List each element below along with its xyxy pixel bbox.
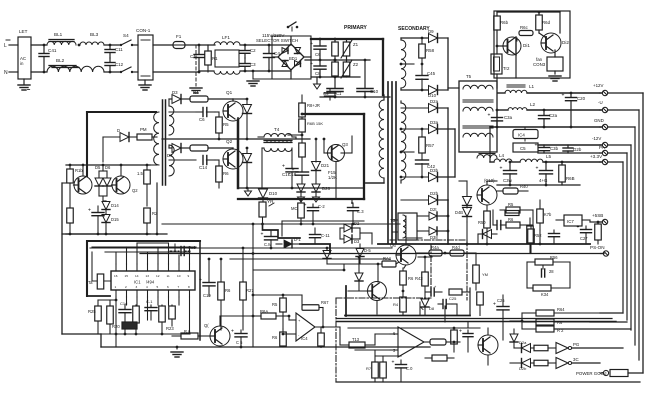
inductor L3: [477, 155, 497, 158]
capacitor C20: [570, 93, 572, 97]
resistor R26: [220, 259, 222, 282]
wire: [240, 44, 269, 46]
diode D16: [466, 181, 468, 196]
wire: [322, 308, 324, 328]
svg-text:YM: YM: [482, 272, 488, 277]
svg-text:C1: C1: [190, 54, 196, 59]
svg-text:R6: R6: [408, 276, 414, 281]
diode D2c: [522, 344, 531, 353]
svg-text:D21: D21: [321, 163, 330, 168]
svg-text:R4: R4: [193, 90, 199, 95]
svg-text:C3: C3: [250, 62, 256, 67]
svg-text:8: 8: [188, 285, 190, 289]
resistor R24: [159, 306, 166, 322]
wire: [570, 274, 582, 276]
IC1 TL494 body: [111, 271, 195, 290]
svg-text:/494: /494: [146, 280, 155, 285]
svg-text:12: 12: [156, 274, 160, 278]
resistor R46: [400, 271, 407, 285]
resistor R10: [299, 143, 306, 157]
svg-text:11: 11: [167, 274, 170, 278]
resistor R61a: [519, 31, 533, 36]
diode D4: [169, 146, 172, 148]
diode D24: [297, 184, 305, 192]
resistor R20 dark: [122, 322, 137, 329]
diode D18: [482, 233, 487, 235]
svg-text:D4B: D4B: [455, 210, 463, 215]
svg-text:2: 2: [125, 285, 127, 289]
svg-text:D26: D26: [322, 186, 331, 191]
resistor PM: [137, 134, 152, 140]
wire bottom link: [470, 295, 490, 310]
svg-text:Q2: Q2: [132, 188, 138, 193]
transformer T1 aux winding: [401, 40, 406, 88]
wire: [459, 180, 467, 182]
wire: [497, 11, 560, 13]
svg-text:D10: D10: [269, 191, 278, 196]
diode D8: [246, 148, 248, 153]
wire: [169, 111, 196, 113]
wire: [497, 199, 540, 201]
resistor R4: [190, 96, 208, 102]
svg-text:D3: D3: [354, 239, 360, 244]
svg-text:R1b: R1b: [75, 168, 83, 173]
svg-text:R5: R5: [272, 302, 278, 307]
wire bus right edge: [608, 92, 643, 94]
wire: [282, 320, 284, 322]
svg-text:R7: R7: [366, 366, 372, 371]
svg-text:C 5: C 5: [236, 340, 243, 345]
diode D27: [344, 224, 352, 232]
capacitor C2: [244, 45, 246, 50]
transformer T1 secondary winding: [401, 103, 406, 180]
resistor R58: [421, 38, 423, 44]
wire Q8 collector: [377, 264, 379, 282]
transistor Q3: [328, 145, 345, 162]
resistor R62a: [536, 15, 543, 30]
capacitor Ca1 dashed: [170, 250, 179, 252]
svg-text:Z2: Z2: [353, 62, 359, 67]
diode D5: [98, 171, 100, 177]
transformer T5 winding c: [463, 133, 493, 137]
resistor R68: [561, 162, 563, 165]
capacitor C15b: [240, 330, 242, 333]
svg-text:R6B 15K: R6B 15K: [307, 121, 323, 126]
transformer T1 core: [387, 82, 389, 243]
svg-text:+: +: [231, 329, 234, 335]
svg-text:LET: LET: [19, 29, 28, 34]
svg-text:D3: D3: [172, 90, 178, 95]
svg-text:15: 15: [125, 274, 129, 278]
svg-text:R6: R6: [272, 335, 278, 340]
transistor Q14: [74, 176, 92, 194]
svg-text:D14: D14: [111, 203, 119, 208]
svg-text:R6c: R6c: [520, 25, 529, 30]
svg-text:+: +: [392, 360, 395, 366]
svg-text:R52: R52: [534, 233, 542, 238]
zener D8b: [421, 299, 429, 307]
transformer TR2: [491, 54, 502, 74]
svg-text:PA: PA: [599, 145, 606, 150]
wire bus above IC1: [92, 246, 196, 248]
capacitor C28: [542, 266, 544, 269]
diode D21: [315, 139, 317, 162]
svg-text:D2a: D2a: [430, 99, 439, 104]
ground arrow: [298, 197, 305, 202]
wire bottom frame: [336, 381, 640, 383]
svg-text:+3.3V: +3.3V: [590, 154, 603, 159]
ground: [144, 80, 146, 84]
capacitor C11: [104, 44, 120, 46]
terminal -U: [602, 107, 607, 112]
capacitor C14: [202, 156, 204, 165]
resistor R27: [242, 248, 244, 282]
svg-text:D9: D9: [428, 29, 434, 34]
capacitor C13: [352, 203, 354, 207]
svg-text:C.M: C.M: [264, 242, 272, 247]
svg-text:C26: C26: [497, 298, 505, 303]
transistor Q2: [223, 149, 243, 169]
svg-text:C5: C5: [520, 146, 526, 151]
diode D26: [312, 184, 320, 192]
svg-text:R56: R56: [550, 255, 558, 260]
wire rail A: [90, 247, 392, 249]
svg-text:4+G: 4+G: [539, 178, 548, 183]
wire y328: [348, 327, 468, 329]
svg-text:28: 28: [549, 269, 554, 274]
capacitor C25: [442, 300, 444, 309]
svg-text:R4a: R4a: [431, 245, 439, 250]
resistor R21: [107, 306, 114, 324]
transistor Q5: [396, 245, 416, 265]
wire: [521, 313, 523, 329]
diode D14b: [326, 248, 328, 250]
wire thick primary return: [303, 113, 364, 115]
resistor R30: [300, 218, 302, 224]
IC1 pins top: [115, 264, 117, 271]
svg-text:R8+JR: R8+JR: [307, 103, 320, 108]
connector CON3 fan: [547, 57, 563, 71]
wire: [335, 162, 337, 200]
resistor R40b: [400, 297, 407, 312]
svg-text:9: 9: [188, 274, 190, 278]
svg-text:13: 13: [146, 274, 150, 278]
svg-text:D2t: D2t: [430, 207, 437, 212]
wire rail C: [230, 258, 390, 260]
svg-text:5: 5: [157, 285, 159, 289]
wire: [374, 334, 376, 345]
resistor R61: [610, 370, 628, 377]
svg-text:C-2: C-2: [318, 204, 325, 209]
svg-text:GND: GND: [594, 118, 604, 123]
transformer T5 winding a: [463, 85, 493, 89]
resistor R44: [416, 252, 429, 254]
svg-text:+: +: [199, 278, 202, 284]
svg-text:K34: K34: [541, 292, 549, 297]
op-amp IC2: [296, 313, 315, 341]
resistor R57: [421, 129, 423, 137]
varistor VR2: [343, 62, 350, 76]
svg-text:D4: D4: [167, 153, 173, 158]
resistor R15: [181, 333, 198, 339]
diode D7: [246, 99, 248, 104]
trimpot VR3: [259, 202, 266, 217]
svg-text:L2: L2: [530, 102, 536, 107]
svg-text:L1: L1: [529, 84, 535, 89]
diode D2b: [401, 199, 428, 201]
buffer PG: [556, 343, 568, 354]
svg-text:R5: R5: [508, 202, 514, 207]
diode D15: [102, 215, 110, 223]
capacitor C21: [496, 221, 498, 230]
resistor R22: [133, 306, 140, 323]
svg-text:L: L: [4, 43, 7, 49]
svg-text:R4d: R4d: [452, 245, 460, 250]
wire: [102, 137, 104, 162]
svg-text:R58: R58: [426, 48, 435, 53]
svg-text:+12V: +12V: [593, 83, 603, 88]
resistor R8: [301, 95, 303, 103]
resistor R64: [522, 312, 536, 314]
wire bottom rail: [238, 187, 364, 189]
op-amp IC3: [398, 327, 424, 357]
resistor R6a: [597, 222, 599, 224]
capacitor C2c: [567, 145, 569, 148]
wire -U rail: [527, 109, 601, 111]
ground arrow: [313, 197, 320, 202]
trimpot VR3 wire: [262, 217, 264, 224]
resistor R41: [382, 261, 396, 267]
svg-text:C.3: C.3: [357, 209, 364, 214]
diode D1: [276, 243, 282, 245]
svg-text:C2: C2: [250, 48, 256, 53]
ground: [190, 87, 202, 89]
svg-text:10: 10: [177, 274, 181, 278]
svg-text:1.5: 1.5: [137, 171, 143, 176]
svg-text:14: 14: [135, 274, 139, 278]
svg-text:D2a: D2a: [519, 340, 527, 345]
capacitor C3: [244, 58, 246, 63]
inductor BL1: [47, 41, 76, 45]
svg-text:3: 3: [136, 285, 138, 289]
terminal PA: [602, 150, 607, 155]
capacitor C2k: [553, 230, 555, 233]
capacitor C12b: [150, 305, 152, 307]
transistor Q8: [368, 282, 387, 301]
svg-text:C3b: C3b: [550, 146, 559, 151]
resistor R73: [340, 344, 349, 346]
switch S1 selector: [287, 26, 290, 29]
capacitor C19a: [325, 92, 336, 94]
resistor R3: [332, 62, 339, 76]
wire IC1 top connections: [115, 252, 117, 264]
svg-text:C3w: C3w: [503, 178, 513, 183]
terminal PG out: [603, 370, 608, 375]
svg-text:Di1: Di1: [523, 43, 530, 48]
resistor R48: [534, 345, 548, 351]
svg-text:+: +: [310, 61, 313, 67]
capacitor C13b: [430, 288, 432, 296]
svg-text:C20: C20: [577, 96, 586, 101]
capacitor C11b: [314, 228, 316, 234]
transformer T5 box: [459, 81, 497, 152]
transformer T4: [264, 134, 292, 137]
inductor BL3: [80, 42, 104, 45]
wire: [253, 269, 344, 271]
wire: [444, 306, 446, 322]
svg-text:D8: D8: [429, 306, 435, 311]
svg-text:G2b: G2b: [573, 147, 582, 152]
svg-text:C45: C45: [427, 71, 436, 76]
svg-text:+: +: [500, 166, 503, 172]
wire: [492, 210, 494, 225]
svg-text:+: +: [488, 113, 491, 119]
filter inductor LF1: [215, 50, 239, 67]
resistor R48b: [430, 357, 436, 359]
switch S4: [120, 44, 122, 46]
svg-text:R64: R64: [557, 307, 565, 312]
resistor R7b: [539, 208, 541, 213]
svg-text:+: +: [282, 164, 285, 170]
resistor R56: [527, 261, 535, 263]
diode D2t: [417, 215, 428, 217]
wire bus y318: [337, 318, 612, 320]
svg-text:R67: R67: [321, 300, 329, 305]
wire block right side: [156, 183, 158, 234]
svg-text:PG: PG: [573, 342, 580, 347]
svg-text:in: in: [20, 61, 24, 66]
capacitor C19: [208, 259, 210, 282]
wire: [161, 334, 163, 336]
resistor R4G: [473, 265, 480, 283]
svg-text:+: +: [562, 93, 565, 99]
svg-text:+5SB: +5SB: [592, 213, 603, 218]
svg-text:R 2: R 2: [557, 328, 564, 333]
svg-text:R40: R40: [520, 184, 528, 189]
resistor R63a: [530, 225, 532, 229]
wire: [99, 170, 107, 172]
svg-text:BL2: BL2: [56, 58, 65, 63]
svg-text:+: +: [577, 225, 580, 231]
wire: [209, 295, 221, 297]
diode D6: [106, 171, 108, 177]
svg-text:+: +: [535, 143, 538, 149]
svg-text:D2: D2: [354, 221, 360, 226]
wire +12V rail: [527, 92, 601, 94]
resistor R4G2: [479, 291, 481, 293]
standby supply box: [494, 11, 570, 78]
svg-text:D2b: D2b: [519, 366, 527, 371]
diode D3a: [429, 125, 438, 134]
svg-text:T13: T13: [352, 337, 360, 342]
transformer T3: [398, 213, 417, 240]
svg-text:PM: PM: [140, 127, 147, 132]
resistor R20a: [146, 206, 148, 208]
svg-text:C3a: C3a: [504, 115, 513, 120]
svg-text:R6: R6: [557, 320, 563, 325]
wire: [419, 302, 421, 315]
wire: [327, 263, 360, 265]
transformer T1 primary winding: [379, 100, 384, 178]
resistor R23: [169, 306, 176, 319]
svg-text:16: 16: [114, 274, 118, 278]
diode D3: [169, 98, 172, 100]
svg-text:C6: C6: [315, 52, 321, 57]
diode D9: [429, 34, 438, 43]
svg-text:+: +: [459, 329, 462, 335]
regulator IC7: [564, 215, 582, 226]
svg-text:+: +: [493, 302, 496, 308]
terminal +5VSB: [602, 219, 607, 224]
svg-text:C1d: C1d: [120, 301, 127, 306]
svg-text:R6A: R6A: [260, 309, 268, 314]
capacitor C3w: [509, 162, 511, 170]
wire rectifier bus: [447, 108, 449, 200]
terminal +3.3V: [602, 159, 607, 164]
wire: [497, 184, 580, 186]
diode D2a: [429, 104, 438, 113]
svg-text:BL1: BL1: [54, 32, 63, 37]
svg-text:SELECTOR SWITCH: SELECTOR SWITCH: [256, 38, 298, 43]
wire: [391, 224, 393, 248]
svg-text:D2b: D2b: [430, 191, 439, 196]
wire thick emitter bus: [237, 120, 240, 188]
wire: [169, 159, 196, 161]
wire rail B: [162, 223, 400, 225]
svg-text:IC7: IC7: [567, 219, 574, 224]
svg-text:F1: F1: [176, 34, 182, 39]
inductor BL2: [47, 66, 104, 72]
resistor R49: [534, 360, 548, 366]
svg-text:CON3: CON3: [533, 62, 546, 67]
wire: [424, 341, 430, 343]
svg-text:D15: D15: [111, 217, 119, 222]
svg-text:L4: L4: [499, 153, 505, 158]
svg-text:R50: R50: [478, 220, 486, 225]
capacitor C3b: [543, 145, 545, 147]
ground arrow: [246, 181, 248, 188]
resistor R67: [301, 295, 303, 301]
wire +5VSB heavy rail: [378, 243, 590, 245]
inductor L1: [497, 87, 505, 89]
svg-text:4: 4: [146, 285, 148, 289]
svg-text:+: +: [310, 41, 313, 47]
resistor R52: [529, 210, 531, 225]
capacitor C17: [291, 160, 293, 168]
capacitor C1: [198, 45, 200, 54]
transistor Q12: [503, 37, 521, 55]
svg-text:7: 7: [178, 285, 180, 289]
wire PA rail: [538, 152, 601, 154]
svg-text:D-5: D-5: [364, 248, 371, 253]
terminal PS-ON: [603, 251, 608, 256]
wire sub-box: [526, 262, 528, 288]
resistor R71: [372, 362, 379, 378]
resistor R50: [486, 205, 488, 211]
svg-text:C-11: C-11: [321, 233, 330, 238]
fuse F1: [173, 42, 185, 49]
resistor R60: [496, 12, 498, 16]
svg-text:Tr2: Tr2: [503, 66, 510, 71]
svg-text:D38: D38: [430, 235, 438, 240]
svg-text:C11: C11: [115, 47, 123, 52]
wire GND rail: [490, 126, 601, 128]
capacitor C27: [585, 226, 587, 229]
diode D13: [103, 136, 120, 138]
svg-text:R6: R6: [223, 171, 229, 176]
resistor R68b: [320, 330, 322, 332]
transistor Q7: [477, 185, 497, 205]
